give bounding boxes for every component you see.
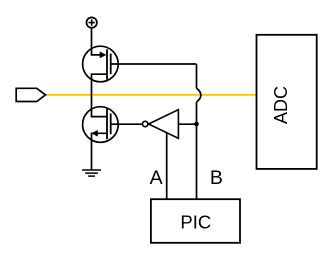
svg-text:ADC: ADC bbox=[271, 86, 291, 124]
svg-text:PIC: PIC bbox=[180, 212, 211, 233]
svg-text:B: B bbox=[210, 167, 223, 189]
svg-text:A: A bbox=[150, 167, 163, 189]
